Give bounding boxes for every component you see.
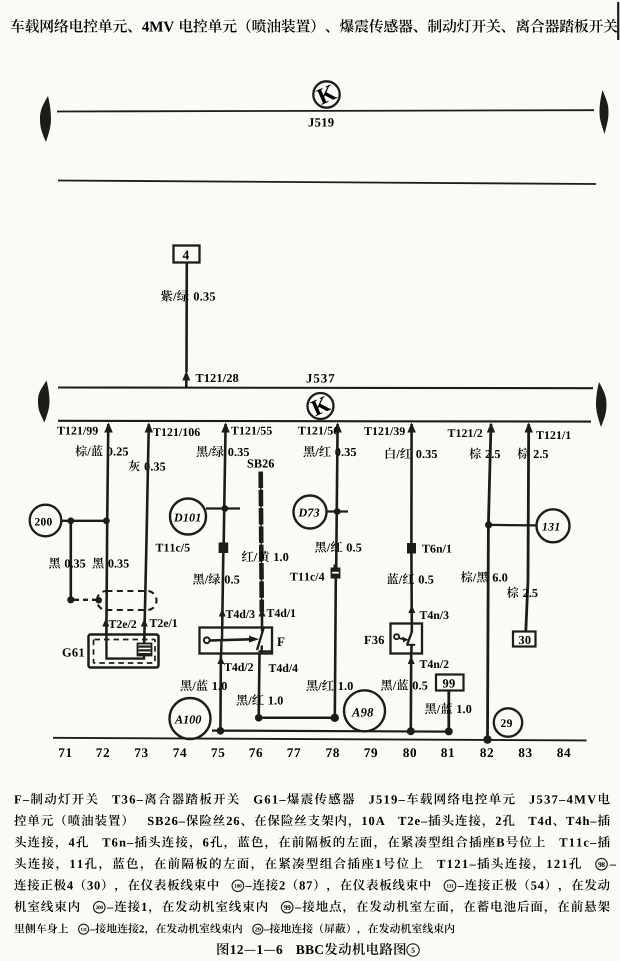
label T4d/1 <box>267 609 296 617</box>
connection circle D101 <box>170 499 206 535</box>
splice dot left <box>255 714 263 722</box>
label T2e/1 <box>150 619 177 627</box>
stub from D101 <box>206 507 240 509</box>
bus J537 top line <box>58 386 593 389</box>
label T4d/4 <box>269 664 298 672</box>
bus J519 K symbol <box>313 81 339 107</box>
label A100 <box>174 715 201 723</box>
pin arrow T4d/2 <box>217 656 224 664</box>
wire inside G61 <box>106 635 144 659</box>
wire black 0.35 left <box>70 521 73 600</box>
ground circle A100 <box>170 698 211 739</box>
wire T121/2 brown <box>488 424 492 740</box>
terminal arrow 3 <box>333 423 342 433</box>
label T4n/2 <box>420 660 449 668</box>
label 200 <box>35 518 52 526</box>
label 黑/绿 0.5 <box>193 573 239 584</box>
track numbers 71-84 <box>59 748 570 757</box>
label 黑/红 0.5 <box>315 541 361 552</box>
terminal arrow 0 <box>104 423 113 433</box>
label 黑/蓝 1.0 <box>180 680 226 691</box>
knock sensor G61 inner dashed box <box>94 640 156 664</box>
label 红/黄 1.0 <box>242 551 288 562</box>
switch F36 blade <box>407 632 412 644</box>
splice link <box>259 717 335 720</box>
wire T121/56 black/red <box>336 424 337 568</box>
label T11c/5 <box>156 544 190 552</box>
legend text block <box>14 793 616 935</box>
page edge mark <box>617 2 619 40</box>
figure caption <box>217 943 419 957</box>
wire black/green 0.5 <box>222 553 223 628</box>
connection circle D73 <box>294 496 327 529</box>
splice dot right <box>331 714 339 722</box>
label T121/55 <box>231 427 272 435</box>
switch F contact circle <box>204 637 210 643</box>
junction dot shield <box>67 596 74 603</box>
label 29 <box>501 719 512 727</box>
label 棕/黑 6.0 <box>461 571 508 582</box>
label T121/99 <box>57 427 98 435</box>
ground dot 82 <box>483 735 491 743</box>
label T121/2 <box>448 429 483 437</box>
ground circle 29 <box>494 708 522 736</box>
label T121/28 <box>196 374 239 382</box>
junction dot <box>67 517 74 524</box>
label T11c/4 <box>290 573 324 581</box>
knock sensor G61 outer box <box>89 635 159 668</box>
label T121/56 <box>298 427 339 435</box>
wire stub from 200 <box>61 520 108 522</box>
connection circle 131 <box>537 509 570 542</box>
label 30 <box>519 636 531 644</box>
label SB26 <box>248 459 274 467</box>
label T4d/2 <box>224 663 253 671</box>
shield dot <box>95 597 102 604</box>
bus J519 line <box>57 110 594 111</box>
connector box 4 <box>174 246 200 263</box>
brake light switch F box <box>200 628 273 654</box>
rail dot 75 <box>217 727 225 735</box>
label 黑 0.35 <box>49 557 85 568</box>
bus J519 right arrow <box>600 90 609 134</box>
pin arrow T4d/1 <box>259 609 266 617</box>
label 黑/绿 0.35 <box>196 446 249 457</box>
bus J537 left arrow <box>38 381 50 423</box>
label 蓝/红 0.5 <box>387 573 433 584</box>
label 4 <box>183 251 189 260</box>
label T4d/3 <box>226 610 255 618</box>
label F36 <box>364 636 384 644</box>
junction dot D73 <box>334 508 341 515</box>
label J519 <box>309 118 334 126</box>
terminal arrow 4 <box>407 423 416 433</box>
bus J519 left arrow <box>40 96 51 142</box>
label D101 <box>174 514 200 522</box>
switch F36 stubs <box>410 624 413 633</box>
label T121/1 <box>536 431 570 439</box>
connection circle 200 <box>30 505 62 537</box>
junction dot <box>103 517 110 524</box>
label 黑/红 0.35 <box>303 446 356 457</box>
shield dashed stadium <box>97 591 157 610</box>
label T121/39 <box>364 427 405 435</box>
label 黑 0.35 (2) <box>92 557 128 568</box>
bus J537 K symbol <box>308 393 334 419</box>
title text <box>11 19 618 33</box>
switch F36 foot <box>406 644 415 646</box>
label 131 <box>542 523 559 531</box>
wire purple/green 0.35 <box>185 263 188 373</box>
connector T11c/5 <box>219 543 229 554</box>
label 黑/红 1.0 (2) <box>306 680 352 691</box>
bus J537 bottom line <box>58 420 591 423</box>
junction dot D101 <box>221 505 228 512</box>
wire T121/55 black/green <box>224 424 226 543</box>
wire T121/99 brown/blue <box>106 424 108 635</box>
clutch switch F36 box <box>391 624 423 654</box>
pin arrow T4n/3 <box>408 605 415 613</box>
pin arrow T2e/2 <box>102 619 109 627</box>
switch F36 contact circle <box>394 634 399 639</box>
junction dot 131 <box>485 521 492 528</box>
wire arrow T121/28 <box>182 371 190 381</box>
label 灰 0.35 <box>128 460 165 471</box>
switch F actuator arrow <box>210 639 250 640</box>
wire black/blue 1.0 <box>219 654 222 731</box>
label A98 <box>351 708 373 717</box>
wire T121/39 white/red <box>410 424 413 543</box>
terminal arrow 5 <box>487 423 495 433</box>
label T121/106 <box>153 428 200 436</box>
stub from D73 <box>327 510 349 512</box>
label J537 <box>307 374 335 383</box>
rail dot 80 <box>407 727 415 735</box>
wire black/blue 0.5 <box>409 654 412 732</box>
rail dot 81 <box>445 727 453 735</box>
terminal arrow 1 <box>145 423 154 433</box>
label T6n/1 <box>422 545 451 553</box>
wire T121/106 grey <box>144 424 149 644</box>
pin arrow T4n/2 <box>408 656 415 664</box>
connector T11c/4 <box>331 568 341 579</box>
pin arrow T4d/3 <box>219 609 226 617</box>
label 99 <box>443 679 455 687</box>
wire black/red 1.0 to splice <box>335 579 336 718</box>
pin arrow T2e/1 <box>141 619 148 627</box>
terminal arrow 2 <box>221 423 230 433</box>
horizontal rule <box>58 181 596 185</box>
switch F internal stubs <box>221 628 224 640</box>
label D73 <box>298 509 319 517</box>
label T4n/3 <box>420 611 449 619</box>
wire black/red 1.0 from T4d/4 <box>257 654 260 718</box>
switch F blade <box>257 628 264 651</box>
label 黑/红 1.0 <box>236 694 282 705</box>
wire black/blue 1.0 right <box>447 691 450 732</box>
label G61 <box>63 648 84 656</box>
connector box 99 <box>436 675 464 691</box>
connector T6n/1 <box>407 543 416 554</box>
label 棕 2.5 (3) <box>507 587 538 598</box>
label 棕/蓝 0.25 <box>75 445 128 456</box>
label F <box>277 637 284 646</box>
wire blue/red 0.5 <box>410 554 413 624</box>
switch F36 actuator arrow <box>399 638 404 639</box>
main ground rail <box>53 738 587 741</box>
shield dashed link <box>74 599 97 601</box>
label 棕 2.5 <box>469 448 500 459</box>
sensor element plates <box>138 644 152 656</box>
wire T121/1 brown 2.5 <box>526 424 529 632</box>
bus J537 right arrow <box>596 382 607 427</box>
connector box 30 <box>513 632 536 647</box>
terminal arrow 6 <box>525 423 534 433</box>
stub to 131 <box>488 524 536 527</box>
label 紫/绿 0.35 <box>161 290 215 302</box>
label 棕 2.5 <box>517 448 548 459</box>
upper ground rail <box>212 731 450 732</box>
fuse wire SB26 red/yellow <box>261 472 262 613</box>
label 黑/蓝 1.0 (2) <box>425 703 471 714</box>
ground circle A98 <box>344 690 385 731</box>
label T2e/2 <box>109 620 137 628</box>
label 白/红 0.35 <box>386 448 437 459</box>
label 黑/蓝 0.5 <box>381 679 427 690</box>
